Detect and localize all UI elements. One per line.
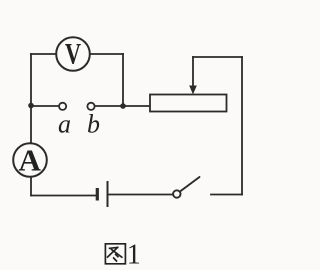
wire battery to switch: [109, 194, 174, 196]
battery cell: short negative plate: [96, 188, 99, 201]
wire right vertical: [241, 57, 243, 195]
wire node to rheostat: [123, 105, 150, 107]
ammeter A: [13, 142, 47, 177]
rheostat R (resistor box): [150, 95, 227, 112]
node junction right: [120, 103, 126, 109]
svg-text:b: b: [87, 110, 100, 139]
rheostat slider arrowhead: [189, 86, 197, 95]
node junction left: [28, 103, 34, 109]
svg-text:V: V: [65, 37, 81, 70]
wire node to terminal a: [31, 105, 58, 107]
wire voltmeter-branch right vertical: [122, 54, 124, 106]
terminal a: [59, 103, 66, 110]
switch S: pivot circle: [173, 190, 180, 197]
wire top-right horizontal: [193, 56, 242, 58]
caption 图 (drawn glyph): [105, 244, 125, 264]
wire bottom-left horizontal (ammeter corner to battery): [31, 195, 96, 197]
switch S: lever: [180, 177, 200, 192]
svg-text:1: 1: [127, 240, 141, 270]
wire ammeter bottom vertical: [30, 178, 32, 196]
wire voltmeter right to corner: [90, 53, 124, 55]
wire left vertical (top corner to ammeter): [30, 54, 32, 143]
wire top-left horizontal to voltmeter: [31, 53, 57, 55]
battery cell: long positive plate: [107, 181, 109, 207]
svg-text:A: A: [19, 142, 42, 177]
wire terminal b to node: [95, 105, 123, 107]
wire bottom-right horizontal (switch to corner): [211, 194, 242, 196]
svg-text:a: a: [58, 110, 71, 139]
voltmeter V: [56, 37, 90, 71]
wire arrow vertical (slider lead): [192, 57, 194, 87]
terminal b: [87, 103, 94, 110]
